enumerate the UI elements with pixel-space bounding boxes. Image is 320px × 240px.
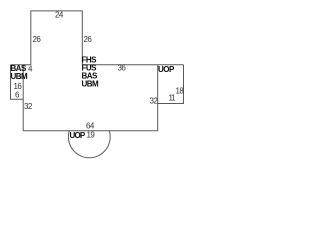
svg-text:19: 19 xyxy=(87,131,96,140)
svg-text:64: 64 xyxy=(86,122,95,131)
svg-text:32: 32 xyxy=(150,97,159,106)
svg-text:26: 26 xyxy=(84,35,93,44)
svg-text:UBM: UBM xyxy=(11,72,29,81)
svg-text:UOP: UOP xyxy=(158,65,175,74)
svg-text:24: 24 xyxy=(55,11,64,20)
svg-text:32: 32 xyxy=(24,102,33,111)
svg-text:UBM: UBM xyxy=(82,80,100,89)
svg-text:UOP: UOP xyxy=(70,131,86,140)
svg-text:18: 18 xyxy=(176,87,185,96)
svg-text:26: 26 xyxy=(33,35,42,44)
svg-text:36: 36 xyxy=(118,64,127,73)
